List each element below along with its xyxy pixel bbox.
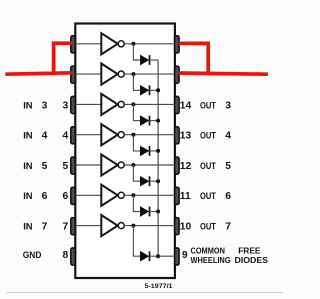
input square-wave trace (red) into pins 1/2 xyxy=(5,41,72,74)
diode D7 (free-wheeling) xyxy=(140,251,149,261)
svg-text:OUT: OUT xyxy=(200,161,216,172)
svg-text:7: 7 xyxy=(62,222,68,233)
svg-text:10: 10 xyxy=(180,222,192,233)
svg-text:GND: GND xyxy=(23,250,42,261)
wire: inverter 3 output to pin 14 xyxy=(124,103,175,105)
wire: inverter 2 output to pin 15 xyxy=(124,73,175,75)
svg-text:IN: IN xyxy=(23,131,33,142)
junction node on output 1 xyxy=(131,42,135,46)
svg-text:5: 5 xyxy=(225,161,231,172)
wire: output 3 node down to diode D3 anode xyxy=(133,104,140,120)
svg-text:4: 4 xyxy=(62,131,68,142)
pin 2 (left, lead rectangle) xyxy=(71,66,75,83)
inverter 5 output bubble xyxy=(118,162,124,168)
inverter 4 output bubble xyxy=(118,132,124,138)
pin 11 (right, lead rectangle) xyxy=(175,187,179,204)
wire: pin 6 to inverter 6 input xyxy=(76,194,102,196)
svg-text:OUT: OUT xyxy=(200,191,216,202)
label IN 6 xyxy=(23,191,47,202)
pin 8 (left, lead rectangle) xyxy=(71,248,75,265)
pin 6 (left, lead rectangle) xyxy=(71,187,75,204)
IC package U1 body outline (16-pin DIP) xyxy=(75,24,175,279)
inverter U1f driver 6 triangle xyxy=(101,185,117,206)
inverter U1d driver 4 triangle xyxy=(101,124,117,145)
svg-text:14: 14 xyxy=(180,100,192,111)
svg-text:OUT: OUT xyxy=(200,131,216,142)
pin 3 (left, lead rectangle) xyxy=(71,96,75,113)
wire: diode D4 cathode to common rail xyxy=(150,150,159,152)
svg-text:IN: IN xyxy=(23,191,33,202)
pin 10 (right, lead rectangle) xyxy=(175,218,179,235)
pin 13 (right, lead rectangle) xyxy=(175,127,179,144)
svg-text:5: 5 xyxy=(62,161,68,172)
label IN 3 xyxy=(23,100,47,111)
svg-text:IN: IN xyxy=(23,222,33,233)
inverter 7 output bubble xyxy=(118,223,124,229)
svg-text:OUT: OUT xyxy=(200,100,216,111)
wire: pin 2 to inverter 2 input xyxy=(76,73,102,75)
svg-text:8: 8 xyxy=(62,250,68,261)
inverter U1g driver 7 triangle xyxy=(101,215,117,236)
wire: diode D5 cathode to common rail xyxy=(150,180,159,182)
inverter 1 output bubble xyxy=(118,41,124,47)
pin 1 (left, lead rectangle) xyxy=(71,36,75,53)
inverter U1c driver 3 triangle xyxy=(101,94,117,115)
wire: pin 3 to inverter 3 input xyxy=(76,103,102,105)
wire: output 7 node down to diode D7 anode xyxy=(133,226,140,257)
wire: pin 4 to inverter 4 input xyxy=(76,134,102,136)
label IN 7 xyxy=(23,222,47,233)
inverter 2 output bubble xyxy=(118,71,124,77)
svg-text:IN: IN xyxy=(23,161,33,172)
wire: pin 1 to inverter 1 input xyxy=(76,43,102,45)
output square-wave trace (red) from pins 16/15 xyxy=(179,41,268,74)
diode D4 (free-wheeling) xyxy=(140,146,149,156)
wire: inverter 4 output to pin 13 xyxy=(124,134,175,136)
svg-text:3: 3 xyxy=(42,100,48,111)
junction node: D5 cathode on rail xyxy=(156,179,160,183)
pin 14 (right, lead rectangle) xyxy=(175,96,179,113)
wire: inverter 5 output to pin 12 xyxy=(124,164,175,166)
svg-text:11: 11 xyxy=(180,191,191,202)
wire: output 6 node down to diode D6 anode xyxy=(133,195,140,211)
svg-text:12: 12 xyxy=(180,161,192,172)
svg-text:6: 6 xyxy=(42,191,48,202)
svg-text:5: 5 xyxy=(42,161,48,172)
diode D6 (free-wheeling) xyxy=(140,207,149,217)
svg-text:3: 3 xyxy=(225,100,231,111)
inverter 3 output bubble xyxy=(118,101,124,107)
diode D1 (free-wheeling) xyxy=(140,55,149,65)
inverter 6 output bubble xyxy=(118,192,124,198)
svg-text:6: 6 xyxy=(62,191,68,202)
pin 5 (left, lead rectangle) xyxy=(71,157,75,174)
junction node: D4 cathode on rail xyxy=(156,149,160,153)
label IN 5 xyxy=(23,161,47,172)
label IN 4 xyxy=(23,131,47,142)
pin 15 (right, lead rectangle) xyxy=(175,66,179,83)
svg-text:WHEELING: WHEELING xyxy=(191,255,231,265)
label OUT 4 xyxy=(200,131,231,142)
wire: diode D6 cathode to common rail xyxy=(150,211,159,213)
label OUT 6 xyxy=(200,191,231,202)
wire: inverter 6 output to pin 11 xyxy=(124,194,175,196)
label OUT 5 xyxy=(200,161,231,172)
wire: diode D1 cathode to common rail xyxy=(150,59,159,61)
junction node: D3 cathode on rail xyxy=(156,119,160,123)
label COMMON FREE WHEELING DIODES (pin 9) xyxy=(191,246,269,265)
pin 12 (right, lead rectangle) xyxy=(175,157,179,174)
wire: pin 7 to inverter 7 input xyxy=(76,225,102,227)
junction node on output 4 xyxy=(131,133,135,137)
svg-text:4: 4 xyxy=(225,131,231,142)
pin 16 (right, lead rectangle) xyxy=(175,36,179,53)
wire: diode D3 cathode to common rail xyxy=(150,120,159,122)
svg-text:6: 6 xyxy=(225,191,231,202)
svg-text:DIODES: DIODES xyxy=(235,255,269,265)
wire: pin 5 to inverter 5 input xyxy=(76,164,102,166)
pin 7 (left, lead rectangle) xyxy=(71,218,75,235)
wire: inverter 1 output to pin 16 xyxy=(124,43,175,45)
svg-text:3: 3 xyxy=(62,100,68,111)
junction node: D2 cathode on rail xyxy=(156,88,160,92)
diode D5 (free-wheeling) xyxy=(140,176,149,186)
diode D2 (free-wheeling) xyxy=(140,85,149,95)
inverter U1b driver 2 triangle xyxy=(101,64,117,85)
svg-text:IN: IN xyxy=(23,100,33,111)
wire: inverter 7 output to pin 10 xyxy=(124,225,175,227)
wire: rail to pin 9 xyxy=(158,255,175,257)
wire: diode D2 cathode to common rail xyxy=(150,89,159,91)
svg-text:7: 7 xyxy=(42,222,48,233)
pin 4 (left, lead rectangle) xyxy=(71,127,75,144)
inverter U1a driver 1 triangle xyxy=(101,33,117,54)
junction node on output 3 xyxy=(131,102,135,106)
svg-text:4: 4 xyxy=(42,131,48,142)
label OUT 3 xyxy=(200,100,231,111)
svg-text:OUT: OUT xyxy=(200,222,216,233)
junction node on output 5 xyxy=(131,163,135,167)
page divider rule xyxy=(6,292,283,294)
svg-text:5-1977/1: 5-1977/1 xyxy=(145,283,174,290)
junction node: D7 cathode on rail xyxy=(156,254,160,258)
wire: common free-wheeling cathode rail (vertical, to pin 9) xyxy=(157,60,159,256)
junction node: D6 cathode on rail xyxy=(156,210,160,214)
wire: output 4 node down to diode D4 anode xyxy=(133,135,140,151)
svg-text:13: 13 xyxy=(180,131,192,142)
junction node on output 2 xyxy=(131,72,135,76)
svg-text:9: 9 xyxy=(182,250,188,261)
wire: output 1 node down to diode D1 anode xyxy=(133,44,140,60)
pin 9 (right, lead rectangle) xyxy=(175,248,179,265)
svg-text:7: 7 xyxy=(225,222,231,233)
label OUT 7 xyxy=(200,222,231,233)
wire: output 5 node down to diode D5 anode xyxy=(133,165,140,181)
wire: diode D7 cathode to common rail xyxy=(150,255,159,257)
inverter U1e driver 5 triangle xyxy=(101,154,117,175)
junction node on output 7 xyxy=(131,224,135,228)
diode D3 (free-wheeling) xyxy=(140,116,149,126)
junction node on output 6 xyxy=(131,193,135,197)
wire: output 2 node down to diode D2 anode xyxy=(133,74,140,90)
